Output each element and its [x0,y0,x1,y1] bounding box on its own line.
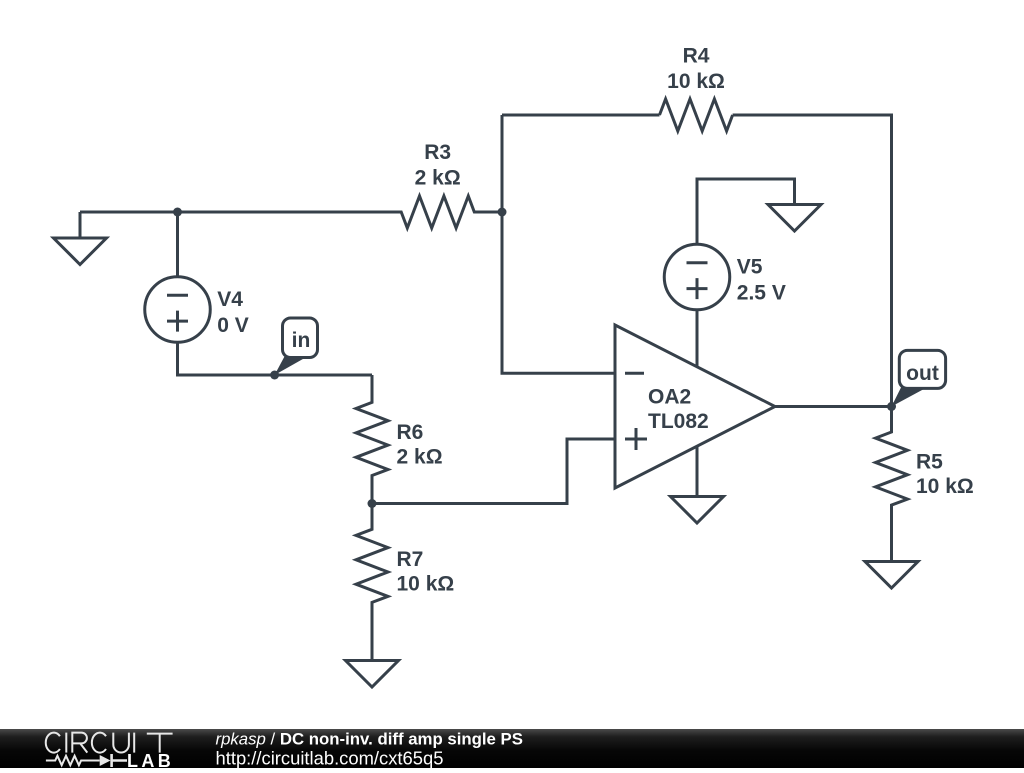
svg-text:http://circuitlab.com/cxt65q5: http://circuitlab.com/cxt65q5 [216,747,444,768]
svg-text:R6: R6 [397,421,424,444]
svg-text:10 kΩ: 10 kΩ [397,573,455,596]
svg-text:OA2: OA2 [648,385,691,408]
svg-text:V5: V5 [737,256,763,279]
svg-text:2 kΩ: 2 kΩ [415,167,461,190]
svg-text:in: in [292,329,311,352]
svg-text:R3: R3 [424,141,451,164]
svg-text:R5: R5 [916,451,943,474]
svg-text:V4: V4 [217,288,243,311]
svg-text:out: out [906,362,939,385]
svg-text:0 V: 0 V [217,314,249,337]
svg-text:10 kΩ: 10 kΩ [667,70,725,93]
svg-text:LAB: LAB [127,751,174,768]
svg-text:2 kΩ: 2 kΩ [397,445,443,468]
svg-text:R7: R7 [397,548,424,571]
svg-text:2.5 V: 2.5 V [737,281,786,304]
svg-text:10 kΩ: 10 kΩ [916,475,974,498]
svg-text:rpkasp / DC non-inv. diff amp: rpkasp / DC non-inv. diff amp single PS [216,730,523,749]
svg-text:TL082: TL082 [648,410,709,433]
svg-text:R4: R4 [683,45,710,68]
